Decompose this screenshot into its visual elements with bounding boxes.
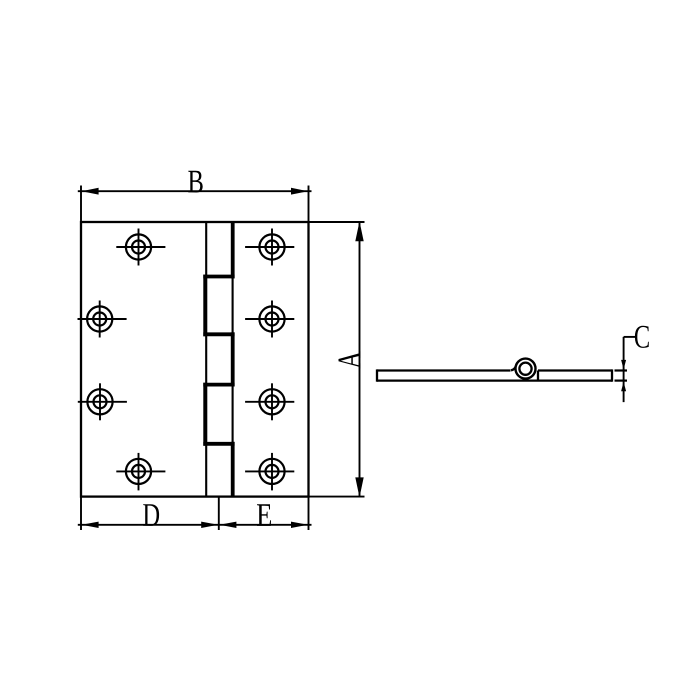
dimension B extension lines [81, 186, 309, 223]
side view knuckle outer circle [516, 359, 536, 379]
dimension D and E extension lines [81, 497, 309, 530]
side view leaf bottom edge [377, 379, 612, 381]
dimension A line [359, 222, 361, 497]
screw hole L4 [116, 453, 165, 491]
knuckle strip thin lines [206, 222, 232, 497]
dimension D arrow left [82, 522, 99, 528]
hinge front view outline [81, 222, 309, 497]
label B [188, 171, 202, 193]
side view right end cap [611, 369, 613, 381]
side view knuckle pin inner circle [519, 363, 531, 375]
label C [635, 326, 649, 348]
screw hole L2 [78, 301, 127, 338]
dimension C vertical line [623, 337, 625, 402]
knuckle zigzag thick segments [203, 222, 234, 497]
dimension B arrow left [82, 188, 99, 195]
dimension C arrow upper [621, 360, 626, 370]
dimension E arrow left [219, 522, 236, 528]
label E [257, 504, 271, 526]
dimension C leader [624, 336, 636, 338]
dimension C arrow lower [621, 382, 626, 392]
dimension A arrow bottom [355, 477, 363, 497]
side view left end cap [376, 369, 378, 381]
screw hole R3 [245, 383, 294, 420]
dimension E arrow right [291, 522, 308, 528]
dimension B line [78, 190, 312, 192]
side view leaf top edge right [538, 369, 612, 371]
dimension A extension lines [309, 222, 365, 497]
label D [143, 504, 159, 526]
side view leaf top edge left [377, 369, 511, 371]
screw hole R2 [245, 301, 294, 338]
screw hole L1 [116, 229, 165, 266]
dimension A arrow top [355, 221, 363, 241]
dimension D arrow right [201, 522, 218, 528]
screw hole L3 [78, 383, 127, 420]
dimension D/E line [78, 524, 312, 526]
side view knuckle neck curve [511, 364, 517, 371]
dimension C extension segments [615, 371, 628, 381]
screw hole R4 [245, 453, 294, 491]
label A (rotated) [339, 351, 361, 368]
screw hole R1 [245, 229, 294, 266]
dimension B arrow right [291, 188, 308, 195]
side view right leaf edge behind knuckle [537, 371, 539, 381]
